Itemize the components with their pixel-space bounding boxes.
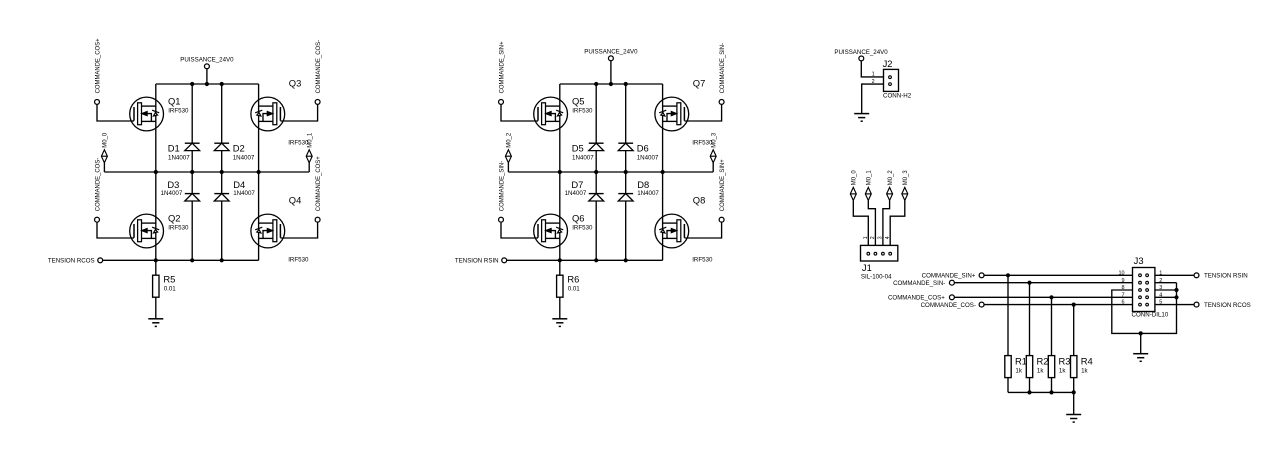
svg-text:1N4007: 1N4007 [168, 155, 190, 162]
svg-text:IRF530: IRF530 [692, 257, 713, 264]
wire left column (Q1/Q2) [155, 84, 157, 260]
svg-text:2: 2 [1159, 278, 1162, 284]
svg-text:M0_3: M0_3 [903, 170, 909, 186]
svg-text:D6: D6 [637, 143, 649, 154]
svg-text:D4: D4 [233, 179, 245, 190]
svg-text:IRF530: IRF530 [168, 108, 189, 115]
svg-text:R2: R2 [1037, 356, 1049, 367]
svg-text:D1: D1 [168, 143, 180, 154]
wire left column (Q5/Q6) [559, 84, 561, 260]
junction [220, 170, 224, 174]
junction [1049, 390, 1053, 394]
wire mid rail (bridge outputs) [508, 171, 713, 173]
svg-text:R1: R1 [1015, 356, 1027, 367]
resistor R5 [153, 260, 159, 319]
junction [220, 258, 224, 262]
svg-text:1N4007: 1N4007 [161, 190, 183, 197]
svg-text:M0_2: M0_2 [888, 170, 894, 185]
wire to ground [1140, 333, 1142, 353]
diode D6 [618, 143, 633, 150]
junction [594, 82, 598, 86]
svg-text:5: 5 [1159, 300, 1162, 306]
wire mid rail (bridge outputs) [104, 171, 309, 173]
wire diode column D1/D3 [191, 84, 193, 260]
wire [712, 163, 714, 172]
svg-text:0.01: 0.01 [164, 286, 177, 293]
resistor R2 [1026, 283, 1032, 393]
svg-text:4: 4 [1159, 292, 1162, 298]
junction [220, 82, 224, 86]
junction [190, 170, 194, 174]
wire gate [97, 222, 134, 238]
ground [552, 319, 567, 327]
connector J3 [1133, 268, 1155, 312]
junction [594, 170, 598, 174]
junction [558, 170, 562, 174]
svg-text:3: 3 [1159, 285, 1162, 291]
transistor Q1 [130, 97, 164, 131]
wire [954, 296, 1133, 298]
resistor R6 [557, 260, 563, 319]
svg-text:1k: 1k [1059, 368, 1066, 375]
svg-text:COMMANDE_COS-: COMMANDE_COS- [921, 302, 976, 309]
wire gate [501, 104, 538, 121]
svg-text:6: 6 [1122, 300, 1125, 306]
junction [609, 82, 613, 86]
transistor Q3 [251, 97, 285, 131]
junction [154, 258, 158, 262]
resistor R4 [1071, 305, 1077, 393]
resistor R1 [1005, 275, 1011, 392]
svg-text:4: 4 [885, 236, 891, 239]
transistor Q2 [130, 214, 164, 248]
svg-text:0.01: 0.01 [568, 286, 581, 293]
svg-text:Q3: Q3 [289, 78, 302, 89]
junction [154, 170, 158, 174]
wire to ground [1073, 392, 1075, 414]
H-bridge 2 (SIN phase) [455, 41, 726, 326]
svg-text:COMMANDE_COS-: COMMANDE_COS- [316, 40, 322, 93]
svg-text:Q8: Q8 [693, 195, 706, 206]
junction [624, 170, 628, 174]
svg-text:J1: J1 [862, 262, 872, 273]
ground [1066, 415, 1081, 423]
svg-text:8: 8 [1122, 285, 1125, 291]
svg-text:CONN-H2: CONN-H2 [883, 93, 912, 100]
transistor Q7 [655, 97, 689, 131]
diode D8 [618, 194, 633, 201]
svg-text:1k: 1k [1015, 368, 1022, 375]
wire gate [684, 104, 721, 121]
junction [1072, 303, 1076, 307]
wire top rail [560, 83, 663, 85]
wire [1155, 274, 1195, 276]
svg-text:COMMANDE_COS+: COMMANDE_COS+ [888, 295, 945, 302]
wire gate [684, 222, 721, 238]
wire [868, 200, 875, 245]
svg-text:COMMANDE_SIN-: COMMANDE_SIN- [720, 43, 726, 93]
svg-text:COMMANDE_COS+: COMMANDE_COS+ [316, 156, 322, 211]
wire [103, 163, 105, 172]
svg-text:2: 2 [872, 79, 875, 85]
wire [853, 200, 868, 245]
wire diode column D2/D4 [221, 84, 223, 260]
svg-text:PUISSANCE_24V0: PUISSANCE_24V0 [584, 48, 638, 55]
wire top rail [156, 83, 259, 85]
svg-text:D7: D7 [571, 179, 583, 190]
svg-text:3: 3 [878, 236, 884, 239]
svg-text:D3: D3 [167, 179, 179, 190]
wire J3 pin 4 [1155, 296, 1177, 298]
wire gate [280, 222, 317, 238]
svg-text:R3: R3 [1059, 356, 1071, 367]
svg-text:Q6: Q6 [572, 213, 585, 224]
junction [1072, 390, 1076, 394]
svg-text:Q7: Q7 [693, 78, 706, 89]
wire [507, 163, 509, 172]
svg-text:M0_0: M0_0 [852, 170, 858, 186]
connector J1 [861, 245, 898, 261]
connector J2 section (24V power input) [834, 49, 911, 121]
svg-text:1N4007: 1N4007 [233, 155, 255, 162]
svg-text:CONN-DIL10: CONN-DIL10 [1132, 312, 1169, 319]
svg-text:J2: J2 [883, 58, 893, 69]
svg-text:1: 1 [863, 236, 869, 239]
junction [624, 258, 628, 262]
junction [1049, 295, 1053, 299]
wire power stub [206, 68, 208, 84]
svg-text:TENSION RSIN: TENSION RSIN [1204, 273, 1248, 280]
svg-text:M0_3: M0_3 [712, 132, 718, 148]
svg-text:R4: R4 [1081, 356, 1093, 367]
transistor Q5 [534, 97, 568, 131]
transistor Q4 [251, 214, 285, 248]
wire gate [501, 222, 538, 238]
diode D2 [214, 143, 229, 150]
wire [890, 200, 905, 245]
junction [1174, 288, 1178, 292]
wire J3 pin 8 wrap to ground net [1112, 283, 1177, 334]
wire power stub [610, 60, 612, 84]
junction [1006, 273, 1010, 277]
junction [1139, 331, 1143, 335]
wire J3 pin 3 [1155, 289, 1177, 291]
wire [1155, 304, 1195, 306]
wire diode column D6/D8 [625, 84, 627, 260]
wire resistor bottom rail [1008, 391, 1074, 393]
svg-text:D5: D5 [572, 143, 584, 154]
transistor Q6 [534, 214, 568, 248]
svg-text:COMMANDE_SIN+: COMMANDE_SIN+ [720, 159, 726, 211]
svg-text:R5: R5 [163, 274, 175, 285]
svg-text:1: 1 [872, 72, 875, 78]
svg-text:SIL-100-04: SIL-100-04 [861, 274, 892, 281]
svg-text:IRF530: IRF530 [572, 225, 593, 232]
junction [257, 170, 261, 174]
junction [661, 170, 665, 174]
transistor Q8 [655, 214, 689, 248]
svg-text:TENSION RCOS: TENSION RCOS [48, 258, 95, 265]
junction [1027, 390, 1031, 394]
connector J2 [884, 69, 899, 91]
svg-text:D2: D2 [233, 143, 245, 154]
svg-text:1N4007: 1N4007 [637, 190, 659, 197]
svg-text:IRF530: IRF530 [288, 140, 309, 147]
svg-text:M0_1: M0_1 [867, 170, 873, 186]
svg-text:1N4007: 1N4007 [233, 190, 255, 197]
svg-text:M0_0: M0_0 [103, 132, 109, 148]
wire [984, 274, 1133, 276]
svg-text:M0_1: M0_1 [308, 132, 314, 148]
svg-text:COMMANDE_COS+: COMMANDE_COS+ [95, 38, 101, 93]
diode D3 [185, 194, 200, 201]
connector J3 section (control/sense) [888, 255, 1251, 422]
svg-text:IRF530: IRF530 [288, 257, 309, 264]
wire [954, 282, 1133, 284]
svg-text:1N4007: 1N4007 [572, 155, 594, 162]
junction [1174, 295, 1178, 299]
svg-text:10: 10 [1118, 270, 1124, 276]
ground [854, 114, 869, 122]
svg-text:R6: R6 [567, 274, 579, 285]
svg-text:Q4: Q4 [289, 195, 302, 206]
svg-text:J3: J3 [1134, 255, 1144, 266]
svg-text:Q5: Q5 [572, 96, 585, 107]
wire J3 pin 2 [1155, 282, 1177, 284]
svg-text:9: 9 [1122, 278, 1125, 284]
svg-text:D8: D8 [637, 179, 649, 190]
wire bottom rail [102, 259, 259, 261]
wire gate [280, 104, 317, 121]
wire right column (Q3/Q4) [258, 84, 260, 260]
connector J1 section (motor outputs) [850, 170, 909, 281]
svg-text:COMMANDE_SIN-: COMMANDE_SIN- [893, 280, 945, 287]
svg-text:1N4007: 1N4007 [565, 190, 587, 197]
wire diode column D5/D7 [595, 84, 597, 260]
wire gate [97, 104, 134, 121]
wire [308, 163, 310, 172]
ground [1133, 354, 1148, 362]
svg-text:1N4007: 1N4007 [637, 155, 659, 162]
junction [190, 82, 194, 86]
wire [984, 304, 1133, 306]
diode D5 [589, 143, 604, 150]
svg-text:IRF530: IRF530 [168, 225, 189, 232]
wire bottom rail [506, 259, 662, 261]
svg-text:COMMANDE_COS-: COMMANDE_COS- [95, 158, 101, 211]
svg-text:COMMANDE_SIN-: COMMANDE_SIN- [499, 161, 505, 211]
svg-text:Q1: Q1 [168, 96, 181, 107]
diode D4 [214, 194, 229, 201]
svg-text:TENSION RCOS: TENSION RCOS [1204, 302, 1251, 309]
svg-text:1k: 1k [1037, 368, 1044, 375]
svg-text:COMMANDE_SIN+: COMMANDE_SIN+ [499, 41, 505, 93]
svg-text:PUISSANCE_24V0: PUISSANCE_24V0 [180, 56, 234, 63]
junction [594, 258, 598, 262]
svg-text:M0_2: M0_2 [507, 133, 513, 148]
diode D1 [185, 143, 200, 150]
svg-text:COMMANDE_SIN+: COMMANDE_SIN+ [922, 273, 976, 280]
wire J2 pin 2 to ground [862, 84, 884, 114]
svg-text:TENSION RSIN: TENSION RSIN [455, 258, 499, 265]
wire [883, 200, 890, 245]
diode D7 [589, 194, 604, 201]
svg-text:IRF530: IRF530 [572, 108, 593, 115]
svg-text:PUISSANCE_24V0: PUISSANCE_24V0 [834, 49, 888, 56]
junction [558, 258, 562, 262]
svg-text:IRF530: IRF530 [692, 140, 713, 147]
wire to J2 pin 1 [861, 61, 883, 77]
wire right column (Q7/Q8) [662, 84, 664, 260]
resistor R3 [1048, 297, 1054, 392]
svg-text:1: 1 [1159, 270, 1162, 276]
junction [190, 258, 194, 262]
svg-text:2: 2 [870, 236, 876, 239]
junction [1027, 281, 1031, 285]
svg-text:1k: 1k [1081, 368, 1088, 375]
junction [624, 82, 628, 86]
ground [148, 319, 163, 327]
svg-text:7: 7 [1122, 292, 1125, 298]
H-bridge 1 (COS phase) [48, 38, 322, 326]
junction [205, 82, 209, 86]
svg-text:Q2: Q2 [168, 213, 181, 224]
